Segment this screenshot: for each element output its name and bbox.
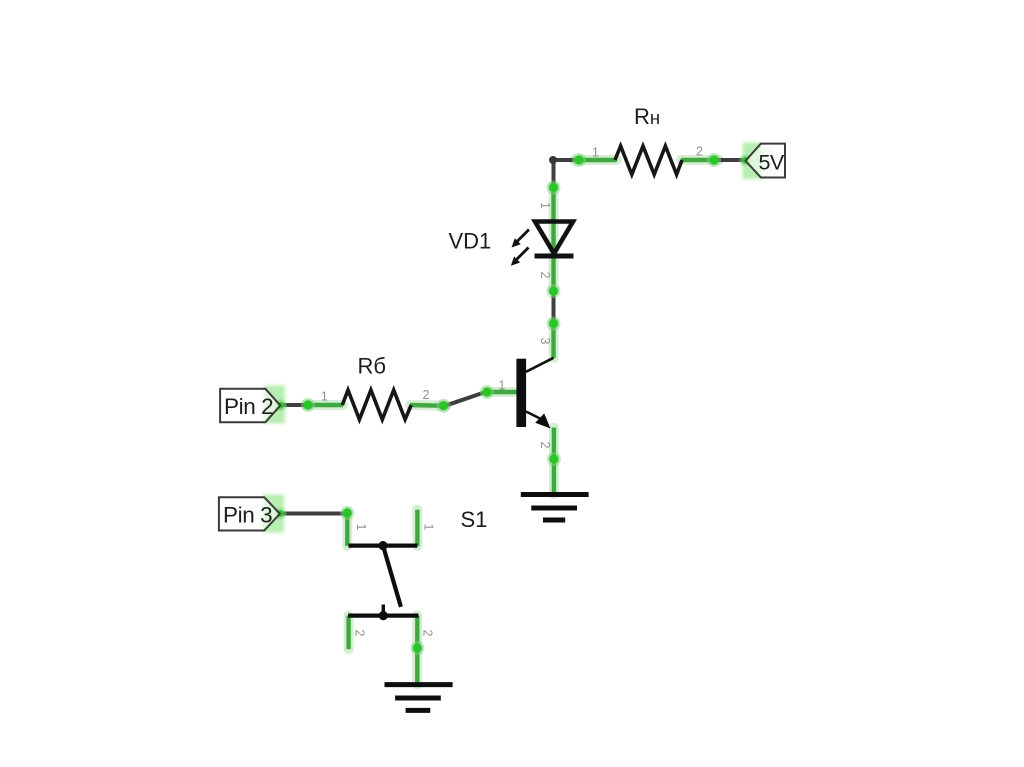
wire: green segment Rн pin2 (681, 158, 719, 162)
node: green junction dot glows (274, 153, 751, 655)
wire: green vertical LED pin2 (551, 256, 555, 292)
wire: green switch pin1 left stub (345, 512, 349, 547)
wire: dark vertical LED to transistor (552, 291, 556, 324)
switch S1 bottom junction dot (379, 611, 388, 620)
svg-text:1: 1 (498, 379, 505, 393)
highlight at Pin 2 terminal tip (264, 386, 285, 424)
wire: green emitter pin2 to ground (552, 428, 556, 495)
svg-text:Pin 2: Pin 2 (224, 394, 273, 419)
highlight at 5V terminal tip (743, 143, 762, 180)
svg-text:Rб: Rб (358, 354, 387, 379)
ground under transistor (521, 495, 589, 521)
svg-text:Rн: Rн (634, 104, 660, 129)
wire: dark vertical junction to LED (552, 160, 556, 189)
highlight at Pin 3 terminal tip (263, 495, 284, 533)
wire: green base pin1 of transistor (486, 390, 517, 394)
switch S1 lever (383, 546, 401, 607)
wire: green switch pin2 right stub to ground (415, 616, 419, 685)
svg-text:5V: 5V (759, 151, 785, 175)
terminal Pin 3 (219, 497, 280, 530)
wire: green R6 pin1 (305, 403, 343, 407)
svg-text:VD1: VD1 (449, 229, 492, 254)
transistor Q1 emitter line (526, 412, 540, 419)
resistor Rб (342, 390, 411, 420)
switch S1 bottom bar (348, 613, 418, 617)
wire: dark wire segment junction dot to Rн (553, 158, 576, 162)
transistor Q1 emitter arrowhead (535, 413, 550, 428)
svg-text:2: 2 (353, 630, 367, 637)
wire: green switch pin1 right stub (415, 510, 419, 546)
LED VD1 triangle (535, 222, 573, 254)
svg-text:2: 2 (423, 388, 430, 402)
svg-text:1: 1 (354, 524, 368, 531)
wire: dark segment Rн to 5V (717, 158, 746, 162)
wire: green R6 pin2 (410, 403, 446, 408)
svg-text:1: 1 (592, 146, 599, 160)
svg-text:1: 1 (321, 390, 328, 404)
transistor Q1 base bar (516, 359, 526, 427)
svg-text:1: 1 (538, 202, 552, 209)
wire: green segment Rн pin1 (574, 158, 617, 162)
LED arrow 1 (512, 230, 530, 248)
svg-text:3: 3 (538, 338, 552, 345)
svg-text:2: 2 (696, 145, 703, 159)
svg-text:1: 1 (422, 524, 436, 531)
ground under switch (385, 685, 453, 711)
wire: dark segment Pin2 to R6 (280, 403, 307, 407)
wire: green switch pin2 left stub (346, 616, 350, 650)
svg-text:2: 2 (421, 630, 435, 637)
node: black junction dot top-left corner (549, 156, 557, 164)
svg-text:2: 2 (538, 442, 552, 449)
wire: dark Pin3 horizontal (280, 512, 349, 516)
svg-text:Pin 3: Pin 3 (223, 503, 272, 528)
switch S1 bottom contact tick (382, 605, 385, 617)
terminal Pin 2 (220, 389, 280, 422)
svg-text:S1: S1 (461, 507, 488, 532)
LED VD1 cathode bar (535, 254, 574, 259)
resistor Rн (615, 146, 682, 175)
terminal 5V (746, 144, 786, 178)
wire: green glow top net (305, 160, 719, 684)
switch S1 top junction dot (378, 541, 387, 550)
wire: dark diagonal R6 to base (445, 392, 486, 406)
node: green junction dots (277, 155, 749, 652)
wire: green vertical transistor pin3 (551, 322, 555, 358)
transistor Q1 collector line (526, 358, 554, 372)
LED arrow 2 (511, 248, 529, 266)
svg-text:2: 2 (538, 272, 552, 279)
wire: green vertical LED pin1 through diode (551, 186, 555, 256)
switch S1 top bar (349, 543, 418, 547)
